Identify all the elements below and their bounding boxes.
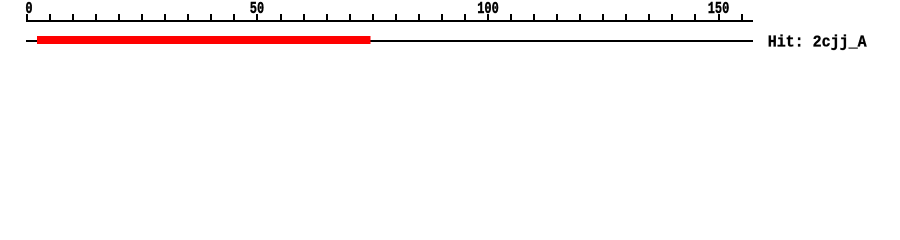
tick mark 65 <box>326 14 328 20</box>
tick mark 45 <box>233 14 235 20</box>
tick mark 120 <box>579 14 581 20</box>
tick mark 150 <box>718 14 720 20</box>
tick mark 60 <box>303 14 305 20</box>
tick mark 20 <box>118 14 120 20</box>
tick mark 25 <box>141 14 143 20</box>
ruler tick marks <box>26 14 743 20</box>
ruler label 50 <box>250 0 264 18</box>
sequence hit overview diagram <box>0 0 900 60</box>
tick mark 130 <box>625 14 627 20</box>
hit bar (red) <box>37 36 371 44</box>
tick mark 50 <box>256 14 258 20</box>
tick mark 135 <box>648 14 650 20</box>
tick mark 105 <box>510 14 512 20</box>
tick mark 35 <box>187 14 189 20</box>
svg-text:Hit: 2cjj_A: Hit: 2cjj_A <box>768 33 867 52</box>
ruler label 150 <box>708 0 730 18</box>
query line (lower) <box>26 40 753 42</box>
tick mark 15 <box>95 14 97 20</box>
background <box>0 0 900 60</box>
tick mark 110 <box>533 14 535 20</box>
tick mark 80 <box>395 14 397 20</box>
tick mark 0 <box>26 14 28 20</box>
hit label text <box>768 33 867 52</box>
tick mark 145 <box>694 14 696 20</box>
tick mark 140 <box>671 14 673 20</box>
tick mark 115 <box>556 14 558 20</box>
tick mark 30 <box>164 14 166 20</box>
ruler label 100 <box>477 0 499 18</box>
tick mark 75 <box>372 14 374 20</box>
tick mark 95 <box>464 14 466 20</box>
tick mark 5 <box>49 14 51 20</box>
tick mark 70 <box>349 14 351 20</box>
ruler axis line <box>26 20 753 22</box>
tick mark 90 <box>441 14 443 20</box>
tick mark 40 <box>210 14 212 20</box>
tick mark 10 <box>72 14 74 20</box>
tick mark 100 <box>487 14 489 20</box>
ruler label 0 <box>25 0 32 18</box>
tick mark 55 <box>280 14 282 20</box>
tick mark 125 <box>602 14 604 20</box>
tick mark 85 <box>418 14 420 20</box>
tick mark 155 <box>741 14 743 20</box>
